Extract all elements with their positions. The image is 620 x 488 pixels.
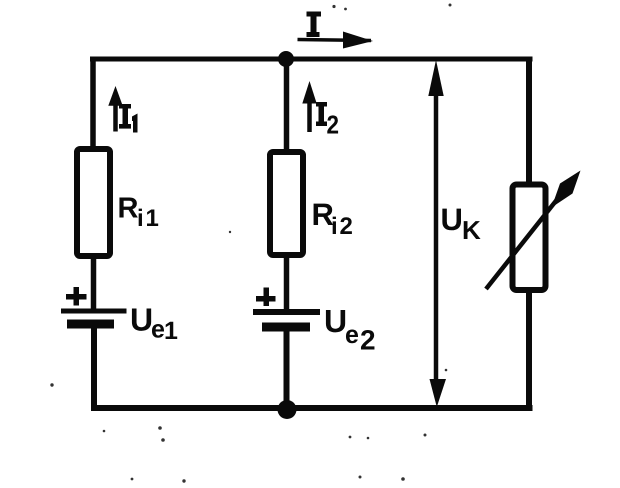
battery Ue1 label	[132, 308, 177, 339]
wire: bottom bus	[91, 405, 533, 411]
current arrow I1	[108, 86, 122, 132]
battery Ue1 plus sign	[66, 287, 87, 306]
wire: middle branch lower segment	[284, 328, 290, 411]
voltage label UK	[442, 209, 480, 239]
battery Ue2 plus sign	[256, 288, 276, 307]
load resistor RL variable arrowhead	[552, 171, 581, 208]
current arrow I (total, pointing right)	[298, 32, 374, 49]
battery Ue1 negative plate (short thick)	[67, 320, 114, 329]
wire: top bus	[90, 57, 533, 62]
wire: middle branch upper segment	[284, 56, 290, 152]
wire: right branch lower segment	[526, 289, 532, 411]
wire: right branch upper segment	[526, 57, 532, 187]
voltage arrow UK top arrowhead	[428, 60, 443, 96]
resistor Ri1 label	[119, 198, 158, 226]
wire: left branch lower segment	[91, 326, 97, 411]
battery Ue2 positive plate (long)	[253, 309, 320, 315]
voltage arrow UK bottom arrowhead	[430, 379, 447, 407]
current label I2	[316, 102, 338, 134]
current label I1	[119, 104, 138, 133]
wire: middle branch resistor-to-battery segment	[284, 254, 290, 312]
voltage arrow UK shaft	[434, 90, 439, 384]
scan speck group (noise)	[50, 4, 451, 483]
node: top junction dot	[278, 51, 294, 67]
current label I (total) with underline	[307, 12, 322, 38]
current arrow I2	[302, 81, 316, 132]
load resistor RL body (variable)	[513, 185, 546, 291]
battery Ue2 label	[326, 310, 375, 350]
wire: left branch resistor-to-battery segment	[91, 255, 97, 312]
resistor Ri2 label	[314, 204, 352, 234]
battery Ue2 negative plate (short thick)	[262, 323, 310, 332]
node: bottom junction dot	[278, 400, 297, 419]
resistor Ri1 body	[77, 149, 110, 256]
resistor Ri2 body	[270, 152, 303, 255]
battery Ue1 positive plate (long)	[61, 309, 127, 314]
load resistor RL variable arrow diagonal	[486, 197, 559, 289]
wire: left branch upper segment	[90, 57, 96, 151]
